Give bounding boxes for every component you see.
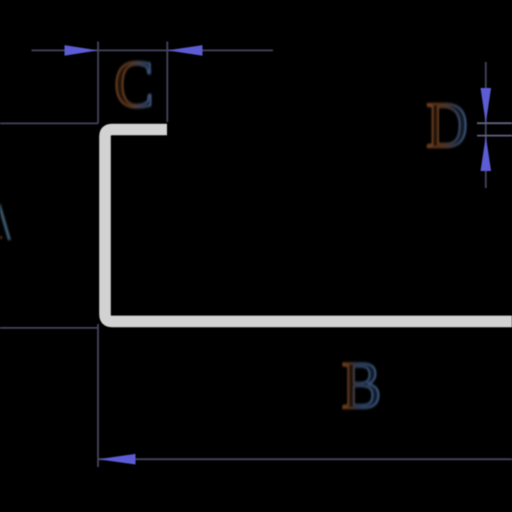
label D (426, 90, 468, 162)
dimension line C (horizontal, top) (32, 49, 274, 51)
extension line D top stub (477, 122, 512, 124)
arrowhead C left (65, 45, 99, 56)
extension line A top (horizontal) (0, 122, 98, 124)
arrowhead C right (167, 45, 202, 56)
dimension line D (vertical, right) (485, 62, 487, 188)
extension line D bottom stub (477, 135, 512, 137)
extension line C right (vertical) (166, 42, 168, 123)
extension line C left (vertical) (97, 42, 99, 124)
svg-text:C: C (114, 46, 154, 121)
profile outline (channel) (105, 130, 512, 322)
label B (342, 347, 382, 422)
svg-text:B: B (342, 347, 382, 422)
extension line B left (vertical) (97, 324, 99, 467)
extension line A bottom (horizontal) (0, 327, 98, 329)
svg-text:D: D (426, 90, 468, 162)
arrowhead D bottom (481, 136, 492, 171)
arrowhead B (98, 454, 136, 465)
label C (114, 46, 154, 121)
arrowhead D top (481, 88, 492, 123)
dimension line B (horizontal, bottom) (98, 458, 512, 460)
label A (clipped at left edge, visible right leg only) (0, 204, 10, 240)
